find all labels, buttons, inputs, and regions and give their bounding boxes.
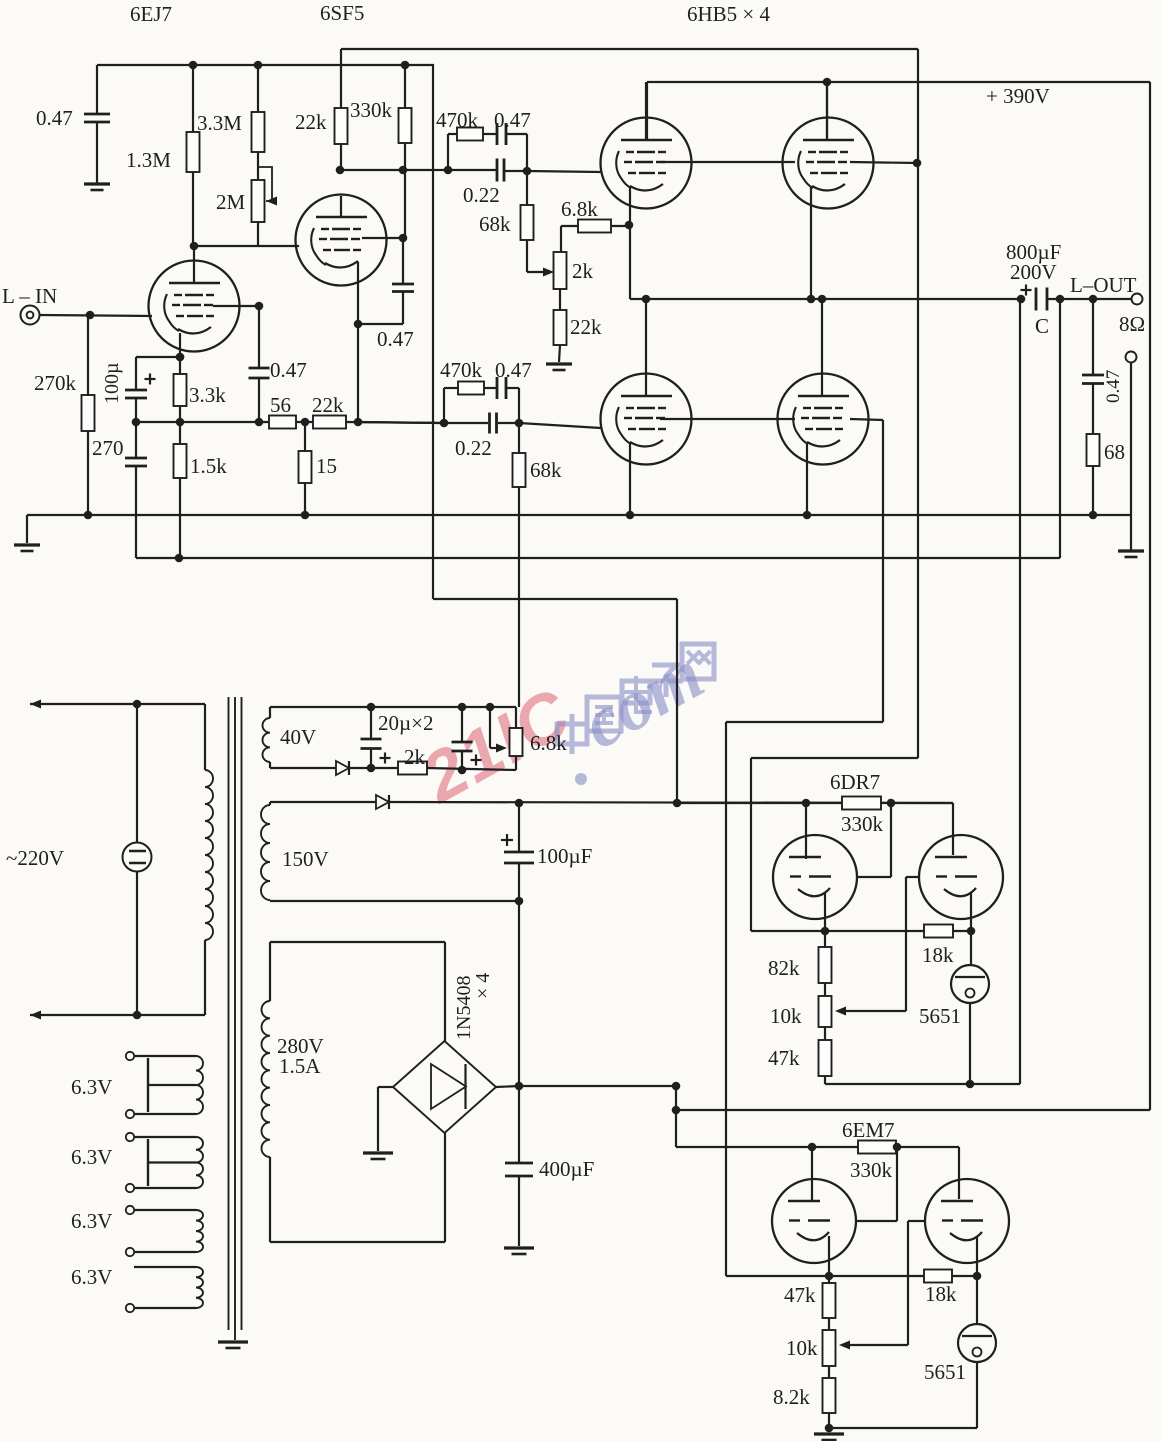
svg-text:0.47: 0.47: [270, 358, 307, 382]
svg-text:0.22: 0.22: [463, 183, 500, 207]
svg-text:18k: 18k: [925, 1282, 957, 1306]
svg-text:100µ: 100µ: [101, 362, 123, 404]
svg-text:68: 68: [1104, 440, 1125, 464]
svg-text:0.22: 0.22: [455, 436, 492, 460]
svg-text:400µF: 400µF: [539, 1157, 594, 1181]
svg-text:0.47: 0.47: [1103, 370, 1124, 403]
svg-text:330k: 330k: [350, 98, 393, 122]
svg-text:22k: 22k: [312, 393, 344, 417]
svg-text:18k: 18k: [922, 943, 954, 967]
svg-text:20µ×2: 20µ×2: [378, 711, 433, 735]
svg-text:10k: 10k: [786, 1336, 818, 1360]
svg-text:6DR7: 6DR7: [830, 770, 880, 794]
svg-text:6.3V: 6.3V: [71, 1209, 112, 1233]
svg-text:1.5k: 1.5k: [190, 454, 227, 478]
svg-text:L – IN: L – IN: [2, 284, 57, 308]
svg-text:6HB5 × 4: 6HB5 × 4: [687, 2, 771, 26]
svg-text:47k: 47k: [768, 1046, 800, 1070]
svg-text:× 4: × 4: [472, 973, 494, 999]
svg-text:470k: 470k: [436, 108, 479, 132]
svg-text:330k: 330k: [841, 812, 884, 836]
svg-text:6SF5: 6SF5: [320, 1, 364, 25]
svg-text:0.47: 0.47: [495, 358, 532, 382]
svg-text:100µF: 100µF: [537, 844, 592, 868]
svg-text:0.47: 0.47: [36, 106, 73, 130]
svg-text:3.3k: 3.3k: [189, 383, 226, 407]
svg-text:2k: 2k: [404, 745, 426, 769]
svg-text:+ 390V: + 390V: [986, 84, 1050, 108]
svg-text:270k: 270k: [34, 371, 77, 395]
svg-text:56: 56: [270, 393, 291, 417]
svg-text:47k: 47k: [784, 1283, 816, 1307]
svg-text:40V: 40V: [280, 725, 316, 749]
svg-text:470k: 470k: [440, 358, 483, 382]
svg-text:0.47: 0.47: [494, 108, 531, 132]
svg-text:10k: 10k: [770, 1004, 802, 1028]
svg-text:15: 15: [316, 454, 337, 478]
svg-text:1.3M: 1.3M: [126, 148, 171, 172]
svg-text:8Ω: 8Ω: [1119, 312, 1145, 336]
svg-text:270: 270: [92, 436, 124, 460]
svg-text:L–OUT: L–OUT: [1070, 273, 1137, 297]
svg-text:5651: 5651: [919, 1004, 961, 1028]
svg-text:6.3V: 6.3V: [71, 1075, 112, 1099]
svg-text:2M: 2M: [216, 190, 246, 214]
svg-text:6.8k: 6.8k: [530, 731, 567, 755]
svg-text:22k: 22k: [570, 315, 602, 339]
svg-text:6.3V: 6.3V: [71, 1145, 112, 1169]
svg-text:6EJ7: 6EJ7: [130, 2, 172, 26]
svg-text:6.8k: 6.8k: [561, 197, 598, 221]
svg-text:5651: 5651: [924, 1360, 966, 1384]
svg-text:200V: 200V: [1010, 260, 1057, 284]
svg-text:0.47: 0.47: [377, 327, 414, 351]
svg-text:com: com: [569, 634, 716, 764]
svg-text:68k: 68k: [479, 212, 511, 236]
svg-text:6EM7: 6EM7: [842, 1118, 895, 1142]
svg-text:82k: 82k: [768, 956, 800, 980]
svg-text:68k: 68k: [530, 458, 562, 482]
svg-text:22k: 22k: [295, 110, 327, 134]
svg-text:C: C: [1035, 314, 1049, 338]
svg-text:3.3M: 3.3M: [197, 111, 242, 135]
svg-text:6.3V: 6.3V: [71, 1265, 112, 1289]
svg-text:330k: 330k: [850, 1158, 893, 1182]
svg-text:150V: 150V: [282, 847, 329, 871]
svg-text:~220V: ~220V: [6, 846, 64, 870]
svg-text:8.2k: 8.2k: [773, 1385, 810, 1409]
svg-text:2k: 2k: [572, 259, 594, 283]
svg-text:1.5A: 1.5A: [279, 1054, 321, 1078]
